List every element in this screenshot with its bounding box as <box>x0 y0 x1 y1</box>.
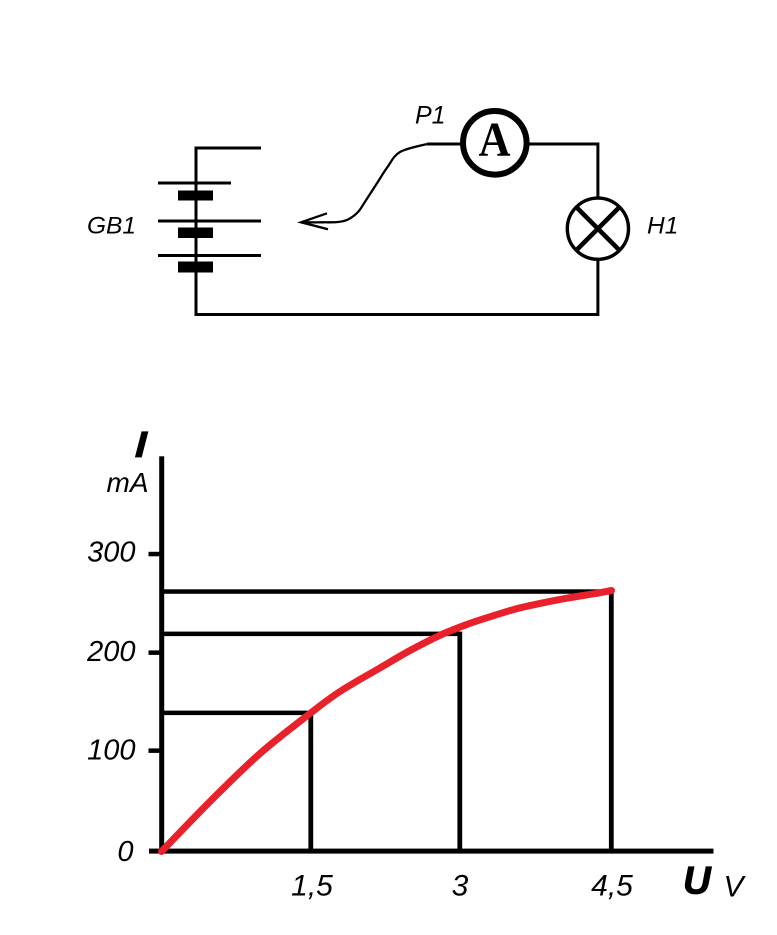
label H1 <box>647 213 678 240</box>
graph X axis (U) <box>149 849 714 854</box>
svg-text:1,5: 1,5 <box>291 870 333 903</box>
label P1 <box>415 102 446 130</box>
graph Y axis (I) <box>159 456 164 853</box>
battery GB1 <box>158 182 261 274</box>
svg-text:4,5: 4,5 <box>591 870 633 903</box>
guide line 260 mA horizontal <box>160 589 612 594</box>
tick 300 <box>149 552 160 557</box>
tick label 300 <box>87 537 135 569</box>
tick label 200 <box>86 636 135 668</box>
tick label 1,5 <box>291 870 333 903</box>
ammeter P1 <box>463 111 527 175</box>
wire lamp top to ammeter right <box>528 144 598 198</box>
guide line 140 mA horizontal <box>160 711 311 716</box>
svg-text:mA: mA <box>107 467 149 498</box>
svg-text:P1: P1 <box>415 102 446 130</box>
svg-text:H1: H1 <box>647 213 678 240</box>
svg-text:0: 0 <box>117 836 133 868</box>
label GB1 <box>87 213 136 240</box>
svg-text:U: U <box>683 860 712 903</box>
tick label 0 <box>117 836 133 868</box>
guide line 1,5 V vertical <box>308 711 313 852</box>
axis label V <box>724 871 747 904</box>
wire battery top stub <box>196 148 261 183</box>
tick label 4,5 <box>591 870 633 903</box>
axis label I <box>135 431 149 457</box>
svg-text:A: A <box>479 112 511 167</box>
svg-text:200: 200 <box>86 636 135 668</box>
svg-text:V: V <box>724 871 747 904</box>
lamp H1 <box>567 198 628 259</box>
svg-text:GB1: GB1 <box>87 213 136 240</box>
wire ammeter left stub <box>427 143 462 146</box>
guide line 3 V vertical <box>457 632 462 852</box>
svg-text:300: 300 <box>87 537 135 569</box>
red I-U characteristic curve <box>162 591 612 852</box>
tick 200 <box>149 650 160 655</box>
axis label U <box>683 860 712 903</box>
tick 100 <box>149 748 160 753</box>
pointer arrow from P1 wire to battery <box>301 144 427 229</box>
tick label 3 <box>452 870 469 903</box>
svg-text:3: 3 <box>452 870 469 903</box>
wire battery bottom to lamp bottom <box>196 260 598 315</box>
tick label 100 <box>87 734 135 766</box>
guide line 4,5 V vertical <box>609 589 614 851</box>
axis label mA <box>107 467 149 498</box>
svg-text:100: 100 <box>87 734 135 766</box>
guide line 220 mA horizontal <box>160 632 461 637</box>
